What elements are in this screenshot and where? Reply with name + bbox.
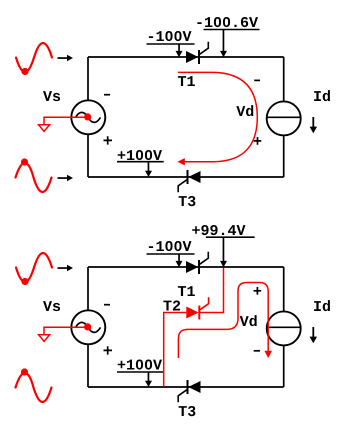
source Vs circle	[71, 100, 105, 134]
probe at Vs	[39, 327, 88, 341]
underline +100V	[117, 371, 164, 373]
minus sign at Vd top	[254, 79, 260, 81]
probe dot at Vs center	[84, 323, 91, 330]
wire left lower	[87, 345, 89, 387]
red arrowhead of current loop	[177, 158, 184, 165]
label T2	[163, 301, 180, 311]
label T3	[179, 196, 196, 206]
label +99.4V	[192, 225, 245, 235]
minus sign at Vs	[104, 94, 110, 96]
minus sign at Vs	[104, 304, 110, 306]
label -100V	[149, 31, 192, 41]
wire left lower	[87, 135, 89, 177]
dot on sine 2	[21, 368, 28, 375]
dot on sine 1	[21, 278, 28, 285]
arrow Id direction	[310, 117, 318, 133]
source Vs circle	[71, 310, 105, 344]
wire right upper	[283, 57, 285, 101]
Id chord	[267, 326, 301, 328]
input waveform sine 2	[16, 163, 52, 192]
input waveform sine 2	[16, 373, 52, 402]
label -100V	[149, 241, 192, 251]
thyristor T1	[186, 252, 208, 274]
arrow after sine 2	[58, 175, 74, 181]
arrow -100.6V to node B	[220, 30, 227, 57]
label T1	[178, 76, 195, 86]
wire left upper	[87, 267, 89, 310]
dot on sine 1	[21, 68, 28, 75]
red wire T2 cathode to node	[199, 268, 223, 313]
input waveform sine 1	[16, 43, 52, 72]
wire bottom	[88, 386, 284, 388]
arrow after sine 1	[58, 265, 74, 271]
plus sign at Vs	[104, 136, 113, 144]
probe dot at Vs center	[84, 113, 91, 120]
arrow Id direction	[310, 327, 318, 343]
wire bottom	[88, 176, 284, 178]
underline +99.4V	[206, 236, 255, 238]
red arrowhead of current path	[264, 351, 272, 358]
label -100.6V	[197, 17, 258, 27]
arrow +100V to wire	[145, 162, 152, 177]
arrow after sine 1	[58, 55, 74, 61]
Vs sine symbol	[76, 112, 101, 122]
thyristor T2 (conducting, red)	[186, 297, 208, 319]
label Vs	[43, 301, 60, 311]
wire right lower	[283, 136, 285, 177]
minus sign at Vd bottom	[254, 350, 260, 352]
label Vs	[43, 91, 60, 101]
wire left upper	[87, 57, 89, 100]
input waveform sine 1	[16, 253, 52, 282]
label T1	[178, 286, 195, 296]
label Vd	[240, 315, 257, 326]
underline +100V	[117, 161, 164, 163]
arrow +99.4V to node	[220, 238, 227, 268]
plus sign at Vd bottom	[254, 137, 262, 145]
label +100V	[118, 360, 162, 370]
red current loop through T1 and Id	[178, 72, 257, 161]
label Id	[314, 300, 330, 311]
thyristor T3	[178, 170, 200, 192]
thyristor T3	[178, 380, 200, 402]
arrow +100V to wire	[145, 372, 152, 387]
label +100V	[118, 150, 162, 160]
Vs sine symbol	[76, 322, 101, 332]
arrow -100V to wire	[176, 45, 183, 58]
wire right lower	[283, 346, 285, 387]
label Vd	[236, 105, 253, 116]
red current path through load and Id	[178, 283, 268, 359]
thyristor T1	[186, 42, 208, 64]
label T3	[179, 406, 196, 416]
underline -100V	[147, 253, 195, 255]
label Id	[314, 90, 330, 101]
red wire T2 anode to bottom rail	[164, 313, 187, 387]
Id chord	[267, 116, 301, 118]
current source Id circle	[267, 311, 301, 345]
plus sign at Vd top	[254, 287, 262, 295]
underline -100V	[147, 43, 195, 45]
wire right upper	[283, 267, 285, 311]
plus sign at Vs	[104, 346, 113, 354]
current source Id circle	[267, 101, 301, 135]
wire top (node A to node B)	[88, 56, 284, 58]
wire top	[88, 266, 284, 268]
arrow -100V to wire	[176, 255, 183, 268]
probe at Vs	[39, 117, 88, 131]
underline -100.6V	[204, 29, 260, 31]
dot on sine 2	[21, 158, 28, 165]
